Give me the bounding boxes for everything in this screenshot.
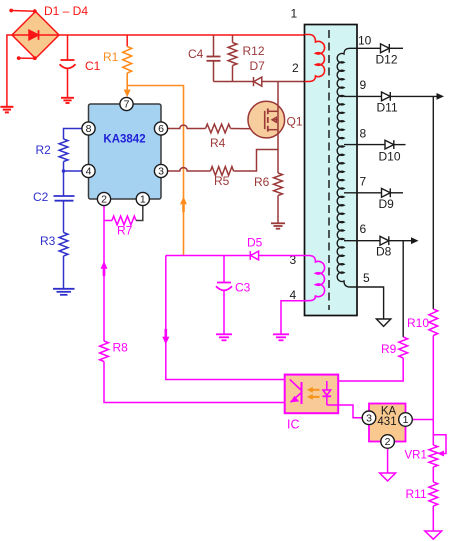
pin circle 7 (KA3842) bbox=[82, 97, 168, 205]
svg-text:D12: D12 bbox=[376, 53, 398, 67]
svg-text:8: 8 bbox=[360, 127, 367, 141]
wire branch D8 down bbox=[402, 241, 404, 337]
wire pin3 with hop bbox=[167, 168, 211, 171]
svg-text:R2: R2 bbox=[36, 143, 52, 157]
optocoupler IC body bbox=[285, 375, 339, 414]
wire R5 to Q1 source node bbox=[234, 150, 279, 172]
transformer T1 body bbox=[305, 25, 358, 316]
resistor R11 bbox=[429, 482, 438, 506]
pin circle 3 (KA3842) bbox=[154, 164, 167, 177]
svg-text:C3: C3 bbox=[235, 281, 251, 295]
bridge rectifier D1-D4 bbox=[9, 9, 59, 61]
svg-text:1: 1 bbox=[140, 194, 146, 206]
svg-text:R11: R11 bbox=[406, 487, 427, 501]
svg-text:1: 1 bbox=[403, 414, 409, 426]
svg-text:9: 9 bbox=[360, 78, 367, 92]
wire KA431 pin1 to divider node bbox=[412, 419, 433, 421]
transistor Q1 bbox=[248, 82, 285, 174]
ground (C3) bbox=[216, 334, 232, 340]
svg-text:D7: D7 bbox=[250, 59, 266, 73]
ground (pin 5) bbox=[376, 319, 390, 326]
svg-text:Q1: Q1 bbox=[287, 115, 303, 129]
wire D5 to transformer pin3 bbox=[259, 255, 305, 257]
pin circle 1 (KA431) bbox=[399, 413, 413, 427]
ground (R6) bbox=[271, 223, 285, 228]
wire LED cathode to KA431 pin3 bbox=[327, 405, 362, 418]
svg-text:R3: R3 bbox=[40, 234, 56, 248]
svg-text:6: 6 bbox=[158, 123, 164, 135]
svg-text:C4: C4 bbox=[188, 47, 204, 61]
svg-text:R1: R1 bbox=[103, 50, 119, 64]
svg-text:D11: D11 bbox=[377, 101, 398, 115]
optocoupler phototransistor bbox=[290, 380, 302, 405]
transformer core dashed line bbox=[328, 30, 330, 310]
capacitor C4 bbox=[207, 35, 221, 82]
svg-text:C1: C1 bbox=[85, 59, 101, 73]
svg-text:1: 1 bbox=[291, 7, 298, 21]
wire C2 to R3 bbox=[63, 201, 65, 233]
wire row pin10 bbox=[356, 47, 381, 49]
svg-text:4: 4 bbox=[86, 166, 92, 178]
pin circle 1 (KA3842) bbox=[136, 192, 149, 205]
ground (KA431 pin2) bbox=[380, 473, 396, 481]
pin circle 2 (KA431) bbox=[381, 435, 395, 449]
wire feedback drop to optocoupler collector bbox=[166, 256, 290, 380]
wire R3 to ground bbox=[63, 256, 65, 289]
capacitor C3 bbox=[216, 256, 232, 335]
diode D8 bbox=[380, 236, 413, 245]
optocoupler LED bbox=[323, 381, 332, 405]
diode D10 bbox=[385, 140, 406, 149]
optocoupler light arrows bbox=[307, 387, 320, 400]
wire D7 to drain node and transformer pin2 bbox=[262, 81, 305, 83]
wire branch D11 down bbox=[432, 96, 434, 309]
wire R7 to pin1 bbox=[136, 206, 143, 221]
svg-text:R10: R10 bbox=[407, 316, 429, 330]
svg-text:4: 4 bbox=[290, 288, 297, 302]
wire R9 to optocoupler LED anode bbox=[327, 358, 403, 381]
resistor R2 bbox=[59, 139, 68, 162]
diode D7 bbox=[254, 77, 262, 86]
IC U2 KA431 body bbox=[369, 404, 406, 442]
wire row pin8 bbox=[344, 144, 385, 146]
svg-text:IC: IC bbox=[287, 418, 300, 432]
svg-text:2: 2 bbox=[385, 436, 391, 448]
pin circle 8 (KA3842) bbox=[82, 122, 95, 135]
svg-text:7: 7 bbox=[124, 99, 130, 111]
pin circle 3 (KA431) bbox=[362, 411, 412, 448]
wire bridge left to ground bbox=[7, 35, 12, 106]
wire orange branch to aux supply bbox=[127, 86, 183, 256]
wire VR1 to R11 bbox=[432, 467, 434, 482]
resistor R10 bbox=[429, 309, 438, 336]
transformer secondary winding (pins 10-5) bbox=[337, 48, 357, 287]
svg-text:2: 2 bbox=[292, 61, 299, 75]
svg-text:D10: D10 bbox=[379, 150, 401, 164]
svg-text:R6: R6 bbox=[254, 175, 270, 189]
wire KA431 pin2 to ground bbox=[387, 448, 389, 473]
wire R1 to pin 7 with arrow bbox=[126, 73, 128, 92]
resistor R9 bbox=[399, 337, 408, 358]
wire R2 to pin4 bbox=[64, 162, 83, 172]
wire R6 to ground bbox=[277, 196, 279, 224]
svg-text:R5: R5 bbox=[214, 174, 230, 188]
svg-text:R9: R9 bbox=[381, 342, 397, 356]
wire R11 to ground bbox=[432, 506, 434, 531]
resistor R4 bbox=[206, 124, 231, 133]
arrow up on orange wire bbox=[180, 197, 187, 205]
arrow output D11 bbox=[437, 93, 445, 100]
wire pin5 to ground bbox=[357, 287, 384, 319]
wire pin6 with hop bbox=[167, 125, 206, 128]
pin circle 6 (KA3842) bbox=[154, 122, 167, 135]
wire pin2 feedback line down bbox=[103, 206, 105, 341]
resistor R1 bbox=[126, 35, 128, 47]
wire row pin6 bbox=[344, 240, 380, 242]
wire aux node line bbox=[166, 255, 251, 257]
wire junction to C2 bbox=[63, 171, 65, 196]
wire main red rail bbox=[59, 34, 305, 36]
pin circle 2 (KA3842) bbox=[97, 192, 110, 205]
resistor R3 bbox=[59, 233, 68, 257]
svg-text:10: 10 bbox=[358, 33, 372, 47]
svg-text:2: 2 bbox=[101, 194, 107, 206]
wire snubber bottom rail bbox=[214, 81, 254, 83]
svg-text:C2: C2 bbox=[33, 190, 49, 204]
potentiometer VR1 bbox=[429, 445, 438, 467]
capacitor C1 bbox=[60, 35, 76, 98]
arrow output D8 bbox=[411, 237, 419, 244]
svg-text:5: 5 bbox=[363, 271, 370, 285]
svg-text:3: 3 bbox=[366, 413, 372, 425]
op-amp U1 KA3842 body bbox=[89, 104, 162, 199]
svg-text:D1 – D4: D1 – D4 bbox=[44, 4, 88, 18]
resistor R12 bbox=[232, 35, 234, 43]
svg-text:D9: D9 bbox=[379, 197, 395, 211]
wire pin8 to R2 bbox=[64, 129, 83, 140]
svg-text:7: 7 bbox=[360, 175, 367, 189]
diode D12 bbox=[381, 44, 404, 53]
wire R10 down to KA431 pin1 node bbox=[432, 336, 434, 446]
svg-text:R8: R8 bbox=[113, 341, 129, 355]
wire R8 to optocoupler emitter bbox=[104, 362, 285, 403]
wire R7 left stub bbox=[104, 220, 112, 222]
svg-text:KA3842: KA3842 bbox=[103, 134, 145, 146]
svg-text:D8: D8 bbox=[376, 245, 392, 259]
arrow down on feedback drop bbox=[162, 337, 169, 345]
ground (bridge input) bbox=[0, 107, 13, 113]
resistor R8 bbox=[100, 341, 109, 362]
svg-text:VR1: VR1 bbox=[405, 450, 427, 462]
diode D11 bbox=[382, 92, 439, 101]
diode D9 bbox=[382, 188, 404, 197]
svg-text:8: 8 bbox=[86, 123, 92, 135]
svg-text:D5: D5 bbox=[247, 236, 263, 250]
transformer primary winding (pins 1-2) bbox=[305, 35, 325, 82]
wire R4 to Q1 gate bbox=[231, 128, 266, 130]
svg-text:R12: R12 bbox=[243, 44, 265, 58]
node junction dot bbox=[62, 169, 66, 173]
resistor R7 bbox=[112, 216, 136, 225]
wire row pin7 bbox=[344, 192, 382, 194]
svg-text:6: 6 bbox=[360, 222, 367, 236]
resistor R6 bbox=[274, 173, 283, 196]
svg-text:R7: R7 bbox=[117, 224, 133, 238]
ground (pin 4) bbox=[273, 334, 289, 340]
resistor R5 bbox=[211, 167, 234, 176]
wire row pin9 bbox=[344, 95, 382, 97]
svg-text:R4: R4 bbox=[210, 136, 226, 150]
VR1 wiper arrow bbox=[433, 435, 446, 454]
svg-text:431: 431 bbox=[377, 416, 396, 428]
arrow up on feedback wire bbox=[101, 261, 108, 269]
ground (R3) bbox=[53, 289, 75, 295]
svg-text:3: 3 bbox=[158, 166, 164, 178]
diode D5 bbox=[250, 251, 258, 260]
capacitor C2 bbox=[54, 196, 75, 201]
wire pin4 to ground bbox=[281, 301, 305, 334]
transformer aux winding (pins 3-4) bbox=[305, 256, 325, 301]
ground (C1) bbox=[61, 98, 74, 103]
ground (output divider) bbox=[425, 531, 442, 539]
pin circle 4 (KA3842) bbox=[82, 164, 95, 177]
